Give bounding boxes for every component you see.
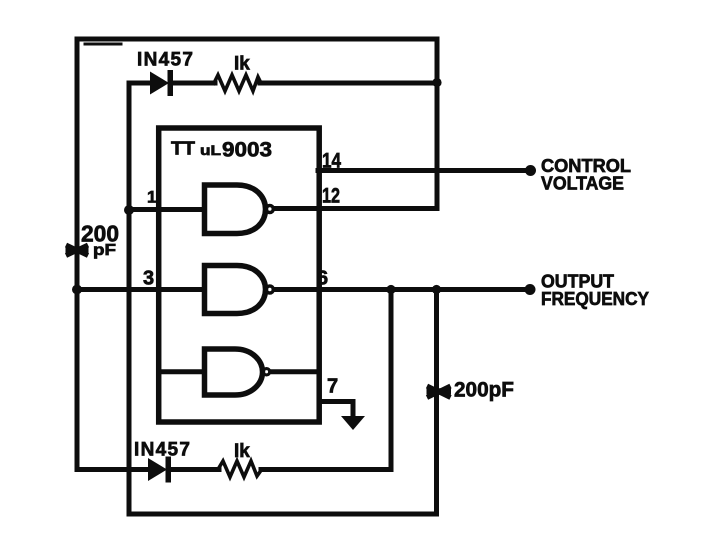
svg-text:IN457: IN457 — [137, 50, 193, 71]
wire pin1 node vertical — [127, 83, 132, 514]
label U1 TTuL9003 — [171, 139, 272, 162]
svg-text:6: 6 — [317, 268, 328, 290]
wire left bus — [75, 39, 80, 470]
svg-text:3: 3 — [143, 268, 154, 290]
NAND gate U1b — [205, 266, 274, 314]
svg-text:FREQUENCY: FREQUENCY — [541, 289, 649, 309]
node dot top feedback/right — [432, 78, 441, 87]
svg-text:14: 14 — [322, 150, 341, 173]
terminal dot control voltage — [525, 165, 536, 176]
diode D1 1N457 — [150, 70, 173, 96]
svg-text:7: 7 — [327, 376, 338, 398]
pin 3 wire — [77, 287, 204, 292]
label OUTPUT FREQUENCY — [541, 272, 649, 310]
IC U1 box — [159, 128, 320, 422]
pin 6 wire — [274, 287, 528, 292]
label CONTROL VOLTAGE — [541, 156, 631, 194]
svg-text:VOLTAGE: VOLTAGE — [541, 174, 624, 194]
svg-text:uL: uL — [200, 142, 222, 158]
resistor R1 1k — [213, 75, 261, 91]
wire R1 to node — [260, 81, 437, 86]
pin 1 wire — [129, 207, 204, 212]
pin 7 wire to ground — [319, 402, 353, 417]
wire pin12 to top bus vertical — [435, 39, 440, 209]
ground — [341, 416, 365, 430]
svg-text:12: 12 — [322, 185, 340, 208]
wire feedback vertical x=391 — [389, 290, 394, 470]
wire R2 to vertical — [261, 467, 391, 472]
diode D2 1N457 — [148, 457, 171, 483]
node dot output/C2 — [432, 285, 441, 294]
svg-text:Ik: Ik — [234, 54, 250, 75]
wire D1 to R1 — [171, 81, 215, 86]
NAND gate U1c — [205, 349, 270, 395]
wire bottom bus — [129, 512, 437, 517]
svg-text:TT: TT — [171, 139, 195, 159]
svg-text:1: 1 — [147, 188, 156, 207]
NAND gate U1a — [205, 185, 274, 234]
capacitor C2 200pF — [427, 386, 452, 398]
capacitor C1 200pF — [66, 245, 89, 256]
svg-text:pF: pF — [93, 242, 116, 259]
svg-text:9003: 9003 — [222, 139, 272, 162]
wire bottom feedback row — [77, 467, 150, 472]
U1c input stub wire — [160, 369, 204, 374]
svg-text:200pF: 200pF — [454, 379, 514, 402]
U1c output stub wire — [271, 369, 318, 374]
svg-text:Ik: Ik — [234, 441, 250, 462]
svg-text:IN457: IN457 — [134, 440, 190, 461]
terminal dot output frequency — [525, 284, 536, 295]
node dot pin1 — [124, 205, 134, 215]
node dot output/feedback — [386, 285, 395, 294]
wire top bus — [77, 39, 437, 44]
node dot pin3/left bus — [72, 285, 82, 295]
wire right vertical (C2 branch) — [434, 290, 439, 515]
pin 14 wire — [318, 168, 528, 173]
wire D2 to R2 — [169, 467, 219, 472]
pin 12 wire — [274, 206, 437, 211]
wire top feedback row — [129, 81, 152, 86]
resistor R2 1k — [217, 461, 262, 477]
